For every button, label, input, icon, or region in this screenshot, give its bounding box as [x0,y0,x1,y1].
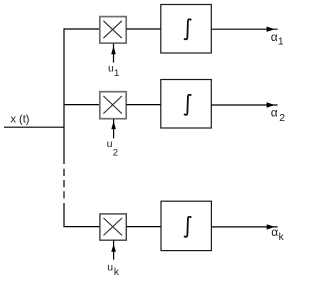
svg-text:2: 2 [113,147,118,158]
wire output row 3 with arrowhead [211,224,277,229]
arrow u1 into M1 [111,43,116,62]
multiplier M1 [100,17,126,43]
svg-text:α: α [271,225,278,239]
svg-text:α: α [271,106,278,120]
integrator U1 [161,5,212,54]
node u_k label [107,261,120,278]
node u_2 label [107,138,118,158]
wire vertical bus solid bottom [64,203,100,227]
svg-text:u: u [107,261,113,273]
wire output row 1 with arrowhead [211,27,277,32]
multiplier M2 [100,92,126,119]
multiplier M3 [100,214,126,240]
node alpha_2 output label [271,106,286,124]
svg-text:x (t): x (t) [11,113,30,125]
arrow uk into M3 [111,240,116,259]
wire M3 to integrator 3 [126,226,161,228]
wire branch row 2 [64,104,100,106]
wire M1 to integrator 1 [126,28,161,30]
wire input horizontal [4,126,65,128]
svg-text:α: α [271,30,278,44]
arrow u2 into M2 [111,119,116,138]
wire output row 2 with arrowhead [211,102,277,107]
wire vertical bus solid top [64,29,100,164]
svg-text:1: 1 [278,36,284,47]
integrator U2 [161,80,212,129]
integrator U3 [161,201,211,250]
node alpha_1 output label [271,30,284,48]
node u_1 label [108,62,119,79]
wire M2 to integrator 2 [126,104,161,106]
node alpha_k output label [271,225,284,243]
wire vertical bus dashed [63,169,65,199]
svg-text:2: 2 [279,112,285,124]
svg-text:1: 1 [114,68,119,79]
svg-text:u: u [107,138,113,150]
